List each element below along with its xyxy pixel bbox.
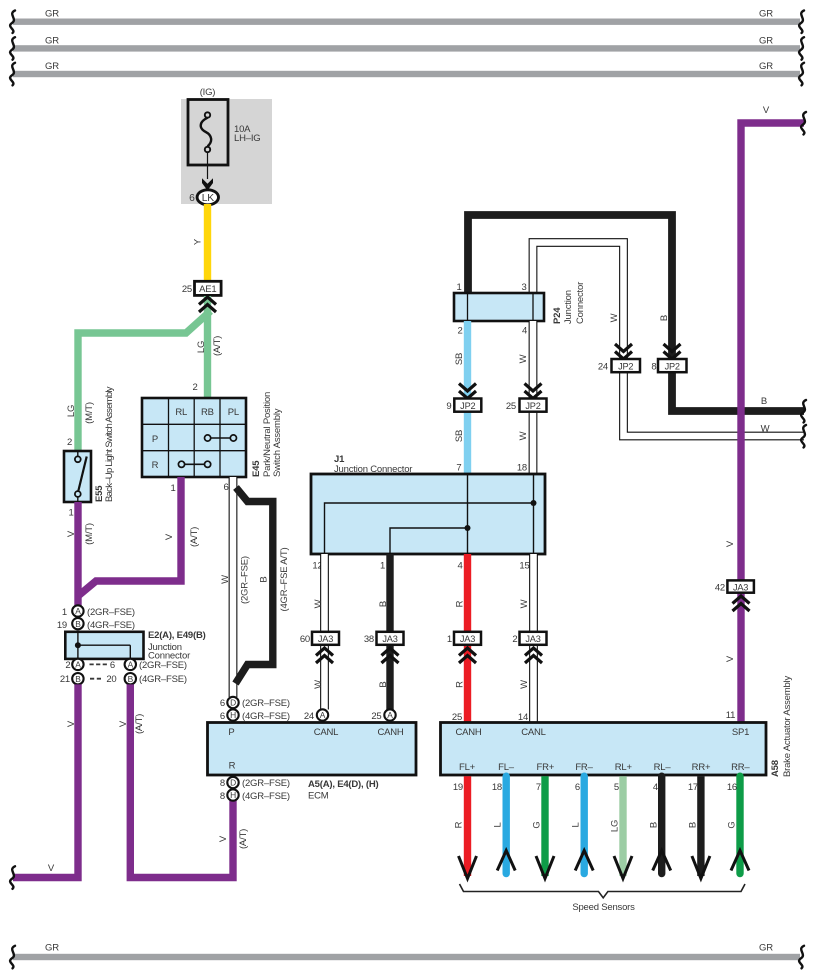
- svg-text:5: 5: [614, 782, 619, 793]
- node circles 8 D / 8 H below ECM: [220, 777, 290, 802]
- svg-text:24: 24: [304, 711, 314, 722]
- svg-text:W: W: [761, 424, 770, 435]
- wire W (2GR-FSE) E45 pin6 to ECM: [220, 477, 251, 697]
- svg-text:R: R: [455, 600, 466, 607]
- svg-text:Junction: Junction: [563, 290, 574, 324]
- break squiggle bus bar 1 right: [799, 11, 804, 34]
- svg-text:D: D: [230, 778, 236, 788]
- break squiggle bus bar 3 left: [10, 63, 15, 86]
- svg-text:R: R: [455, 681, 466, 688]
- svg-text:V: V: [725, 540, 736, 547]
- svg-text:(A/T): (A/T): [238, 829, 249, 849]
- svg-text:11: 11: [726, 710, 735, 721]
- svg-text:(2GR–FSE): (2GR–FSE): [242, 778, 290, 789]
- svg-text:LK: LK: [202, 193, 215, 204]
- svg-text:8: 8: [220, 791, 225, 802]
- svg-text:JP2: JP2: [460, 401, 475, 411]
- svg-text:17: 17: [688, 782, 698, 793]
- svg-text:1: 1: [447, 634, 452, 645]
- wire V left column to bottom edge: [13, 684, 78, 877]
- svg-text:6: 6: [575, 782, 580, 793]
- node circles 2 A / 21 B and 6 A / 20 B below E2: [60, 659, 187, 685]
- speed sensors brace: [460, 884, 746, 913]
- svg-text:B: B: [75, 674, 81, 684]
- svg-text:(4GR–FSE A/T): (4GR–FSE A/T): [279, 548, 290, 612]
- svg-text:GR: GR: [759, 35, 773, 46]
- fuse 10A LH-IG: [188, 87, 260, 191]
- wire LG (A/T) AE1 to E45 pin 2: [192, 296, 223, 398]
- svg-text:R: R: [229, 761, 236, 772]
- break squiggle bus bar 3 right: [799, 63, 804, 86]
- svg-text:(A/T): (A/T): [134, 714, 145, 734]
- svg-text:A: A: [387, 710, 393, 720]
- svg-text:H: H: [230, 790, 236, 800]
- svg-text:P: P: [228, 727, 234, 738]
- svg-text:(M/T): (M/T): [84, 523, 95, 545]
- svg-text:JP2: JP2: [665, 362, 680, 372]
- svg-text:B: B: [128, 674, 134, 684]
- break squiggle bottom bus bar left: [10, 946, 15, 969]
- svg-text:A: A: [128, 660, 134, 670]
- connector 42 JA3: [715, 580, 754, 611]
- svg-text:P: P: [152, 434, 158, 445]
- svg-text:L: L: [493, 822, 504, 827]
- wire SB P24 pin2 to J1 pin7: [454, 321, 468, 474]
- squiggle right end of B wire: [801, 400, 806, 423]
- svg-text:Y: Y: [193, 238, 204, 245]
- svg-text:18: 18: [517, 463, 527, 474]
- svg-text:Switch Assembly: Switch Assembly: [272, 408, 283, 477]
- wire V right side from edge to A38 SP1: [725, 105, 804, 723]
- svg-text:B: B: [75, 619, 81, 629]
- svg-text:GR: GR: [45, 61, 59, 72]
- node circles 6 D / 6 H above ECM: [220, 697, 290, 722]
- svg-text:7: 7: [536, 782, 541, 793]
- svg-text:2: 2: [67, 437, 72, 448]
- svg-text:25: 25: [182, 284, 192, 295]
- svg-text:2: 2: [192, 382, 197, 393]
- wire B P24 loop to right edge: [468, 215, 804, 411]
- squiggle right end of W wire: [801, 425, 806, 448]
- connector 25 AE1: [182, 281, 221, 295]
- connector 8 JP2: [651, 344, 686, 373]
- svg-text:9: 9: [446, 401, 451, 412]
- svg-text:24: 24: [598, 362, 608, 373]
- svg-text:Junction Connector: Junction Connector: [334, 464, 412, 475]
- svg-text:16: 16: [727, 782, 737, 793]
- svg-text:D: D: [230, 698, 236, 708]
- svg-text:(A/T): (A/T): [189, 527, 200, 547]
- svg-text:RL: RL: [175, 407, 187, 418]
- svg-text:V: V: [66, 530, 77, 537]
- wire W P24 pin4 to J1 pin18: [518, 321, 533, 474]
- break squiggle bus bar 2 left: [10, 37, 15, 60]
- svg-text:B: B: [659, 315, 670, 321]
- svg-text:6: 6: [220, 698, 225, 709]
- svg-text:W: W: [313, 599, 324, 608]
- svg-text:1: 1: [456, 282, 461, 293]
- svg-text:GR: GR: [45, 35, 59, 46]
- svg-text:GR: GR: [759, 943, 773, 954]
- wire B J1 pin1 to ECM CANH: [378, 554, 390, 710]
- svg-text:FL–: FL–: [498, 762, 515, 773]
- speed sensor wire RR+ (B): [688, 776, 710, 878]
- svg-text:LG: LG: [610, 820, 621, 832]
- svg-text:A5(A), E4(D), (H): A5(A), E4(D), (H): [308, 779, 379, 790]
- speed sensor wire RL- (B): [649, 776, 671, 873]
- wire V (M/T) E55 to junction: [66, 502, 95, 606]
- svg-text:B: B: [761, 396, 767, 407]
- svg-text:20: 20: [106, 674, 116, 685]
- svg-text:SP1: SP1: [732, 727, 749, 738]
- svg-text:2: 2: [65, 660, 70, 671]
- svg-text:4: 4: [653, 782, 658, 793]
- svg-text:E45: E45: [251, 460, 262, 477]
- svg-text:(2GR–FSE): (2GR–FSE): [240, 556, 251, 604]
- wire R J1 pin4 to A38 CANH: [455, 554, 468, 723]
- P24 Junction Connector: [454, 282, 586, 337]
- connector 25 JP2: [506, 384, 547, 413]
- wire W P24 loop to right edge (under others): [533, 243, 804, 437]
- svg-text:RB: RB: [201, 407, 214, 418]
- node 25 / 14 above A38: [452, 710, 735, 723]
- svg-text:6: 6: [189, 193, 195, 204]
- wire LG (M/T) branch to E55: [66, 311, 211, 451]
- svg-text:FR+: FR+: [536, 762, 554, 773]
- GR bus bar 2: [13, 35, 800, 51]
- connector 24 JP2: [598, 344, 640, 373]
- svg-text:RR–: RR–: [731, 762, 750, 773]
- speed sensor wire FL- (L): [492, 776, 515, 873]
- break squiggle bottom bus bar right: [799, 946, 804, 969]
- svg-text:(2GR–FSE): (2GR–FSE): [242, 698, 290, 709]
- svg-text:6: 6: [223, 482, 228, 493]
- svg-text:GR: GR: [759, 61, 773, 72]
- svg-text:(4GR–FSE): (4GR–FSE): [242, 791, 290, 802]
- svg-text:JP2: JP2: [618, 362, 633, 372]
- break squiggle bus bar 1 left: [10, 11, 15, 34]
- svg-text:(4GR–FSE): (4GR–FSE): [242, 711, 290, 722]
- svg-text:PL: PL: [228, 407, 239, 418]
- svg-text:8: 8: [651, 362, 656, 373]
- svg-text:V: V: [763, 105, 770, 116]
- GR bus bar 1: [13, 9, 800, 25]
- svg-text:60: 60: [300, 634, 310, 645]
- squiggle left end of V wire: [10, 866, 15, 889]
- svg-text:W: W: [609, 313, 620, 322]
- svg-text:JA3: JA3: [318, 634, 333, 644]
- wire W J1 pin12 to ECM CANL: [313, 554, 325, 710]
- svg-text:8: 8: [220, 778, 225, 789]
- svg-text:CANH: CANH: [377, 727, 403, 738]
- svg-text:25: 25: [506, 401, 516, 412]
- svg-text:4: 4: [457, 561, 462, 572]
- svg-text:18: 18: [492, 782, 502, 793]
- svg-text:GR: GR: [759, 9, 773, 20]
- svg-text:V: V: [118, 720, 129, 727]
- speed sensor wire FR+ (G): [532, 776, 555, 878]
- connector 60 JA3: [300, 632, 339, 663]
- svg-text:3: 3: [521, 282, 526, 293]
- wire Y (yellow) fuse to AE1: [193, 204, 208, 281]
- node circles 1 A / 19 B above E2: [57, 605, 135, 631]
- node circles 24 A / 25 A above ECM: [304, 709, 396, 722]
- svg-text:JA3: JA3: [382, 634, 397, 644]
- svg-text:RL+: RL+: [615, 762, 633, 773]
- svg-text:LG: LG: [196, 341, 207, 353]
- svg-text:H: H: [230, 710, 236, 720]
- svg-text:V: V: [66, 720, 77, 727]
- svg-text:(IG): (IG): [200, 87, 216, 98]
- svg-text:Speed Sensors: Speed Sensors: [572, 902, 635, 913]
- svg-text:JP2: JP2: [525, 401, 540, 411]
- svg-text:A58: A58: [770, 760, 781, 777]
- svg-text:Brake Actuator Assembly: Brake Actuator Assembly: [782, 676, 793, 777]
- svg-text:JA3: JA3: [733, 583, 748, 593]
- svg-text:2: 2: [512, 634, 517, 645]
- svg-text:(4GR–FSE): (4GR–FSE): [87, 620, 135, 631]
- svg-text:25: 25: [371, 711, 381, 722]
- svg-text:CANL: CANL: [314, 727, 339, 738]
- svg-text:SB: SB: [454, 353, 465, 365]
- svg-text:E2(A), E49(B): E2(A), E49(B): [148, 630, 206, 641]
- svg-text:FL+: FL+: [459, 762, 476, 773]
- svg-text:JA3: JA3: [460, 634, 475, 644]
- svg-text:W: W: [220, 575, 231, 584]
- connector 2 JA3: [512, 632, 546, 663]
- svg-text:A: A: [75, 660, 81, 670]
- svg-text:A: A: [75, 606, 81, 616]
- svg-text:V: V: [164, 533, 175, 540]
- svg-text:V: V: [725, 655, 736, 662]
- svg-text:P24: P24: [552, 307, 563, 324]
- svg-text:CANL: CANL: [521, 727, 546, 738]
- svg-text:GR: GR: [45, 943, 59, 954]
- speed sensor wire RL+ (LG): [610, 776, 633, 878]
- wire W J1 pin15 to A38 CANL: [519, 554, 534, 723]
- svg-text:W: W: [313, 680, 324, 689]
- E55 Back-Up Light Switch Assembly: [64, 386, 115, 518]
- svg-text:V: V: [218, 835, 229, 842]
- svg-text:1: 1: [62, 607, 67, 618]
- svg-text:Connector: Connector: [575, 282, 586, 324]
- svg-text:15: 15: [519, 561, 529, 572]
- svg-text:FR–: FR–: [575, 762, 593, 773]
- svg-text:1: 1: [68, 508, 73, 519]
- svg-text:B: B: [259, 576, 270, 582]
- svg-text:2: 2: [457, 326, 462, 337]
- connector 38 JA3: [364, 632, 404, 663]
- GR bus bar 3: [13, 61, 800, 77]
- E45 Park/Neutral Position Switch Assembly: [142, 392, 283, 494]
- svg-text:B: B: [378, 601, 389, 607]
- svg-text:JA3: JA3: [525, 634, 540, 644]
- svg-text:G: G: [532, 821, 543, 828]
- svg-text:6: 6: [220, 711, 225, 722]
- svg-text:(A/T): (A/T): [212, 336, 223, 356]
- svg-text:42: 42: [715, 583, 725, 594]
- connector 9 JP2: [446, 384, 481, 413]
- svg-text:SB: SB: [454, 430, 465, 442]
- svg-text:RR+: RR+: [692, 762, 711, 773]
- svg-text:4: 4: [522, 326, 527, 337]
- svg-text:AE1: AE1: [199, 284, 216, 295]
- A38 Brake Actuator Assembly box: [441, 676, 794, 777]
- svg-text:(2GR–FSE): (2GR–FSE): [139, 660, 187, 671]
- svg-text:A: A: [320, 710, 326, 720]
- svg-text:R: R: [152, 460, 159, 471]
- break squiggle bus bar 2 right: [799, 37, 804, 60]
- svg-text:RL–: RL–: [654, 762, 672, 773]
- svg-text:V: V: [48, 863, 55, 874]
- svg-text:B: B: [688, 822, 699, 828]
- fuse block shaded area: [181, 99, 272, 204]
- svg-text:G: G: [727, 821, 738, 828]
- svg-text:(2GR–FSE): (2GR–FSE): [87, 607, 135, 618]
- svg-text:B: B: [649, 822, 660, 828]
- wire B (4GR-FSE A/T) E45 pin6 to ECM: [236, 488, 291, 684]
- connector 1 JA3: [447, 632, 481, 663]
- wire V (A/T) E45 pin1 to junction: [78, 477, 200, 596]
- svg-text:W: W: [518, 354, 529, 363]
- speed sensor wire FR- (L): [571, 776, 594, 873]
- svg-text:1: 1: [170, 483, 175, 494]
- chevron below AE1: [199, 297, 216, 312]
- svg-text:(M/T): (M/T): [84, 402, 95, 424]
- svg-text:B: B: [378, 681, 389, 687]
- svg-text:W: W: [519, 680, 530, 689]
- svg-text:6: 6: [110, 660, 115, 671]
- svg-text:(4GR–FSE): (4GR–FSE): [139, 674, 187, 685]
- svg-text:CANH: CANH: [455, 727, 481, 738]
- ECM box A5(A), E4(D), (H): [208, 723, 417, 802]
- svg-text:21: 21: [60, 674, 70, 685]
- GR bus bar bottom: [13, 943, 800, 961]
- svg-text:19: 19: [453, 782, 463, 793]
- speed sensor wire RR- (G): [727, 776, 750, 873]
- svg-text:R: R: [454, 821, 465, 828]
- connector 6 LK: [189, 190, 218, 205]
- svg-text:1: 1: [380, 561, 385, 572]
- svg-text:LG: LG: [66, 405, 77, 417]
- E2(A), E49(B) Junction Connector: [65, 630, 205, 662]
- svg-text:W: W: [518, 431, 529, 440]
- svg-text:38: 38: [364, 634, 374, 645]
- wire V (A/T) E2 to ECM pin 8 run: [118, 684, 249, 877]
- svg-text:Back–Up Light Switch Assembly: Back–Up Light Switch Assembly: [104, 386, 115, 502]
- svg-text:W: W: [519, 599, 530, 608]
- svg-text:GR: GR: [45, 9, 59, 20]
- J1 Junction Connector: [311, 454, 545, 572]
- svg-text:7: 7: [456, 463, 461, 474]
- svg-text:ECM: ECM: [308, 791, 329, 802]
- svg-text:L: L: [571, 822, 582, 827]
- svg-text:19: 19: [57, 620, 67, 631]
- squiggle right end of V wire: [801, 112, 806, 135]
- speed sensor wire FL+ (R): [453, 776, 477, 878]
- svg-text:LH–IG: LH–IG: [234, 133, 260, 144]
